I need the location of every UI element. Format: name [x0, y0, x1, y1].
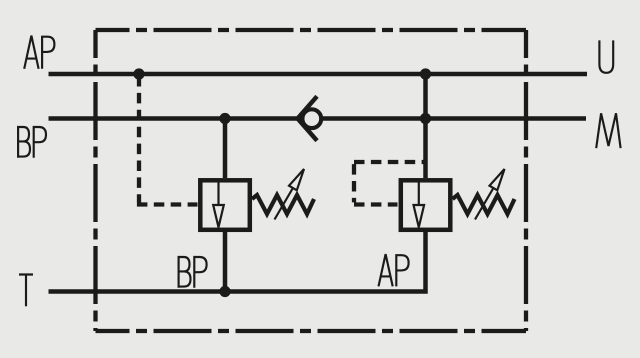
enclosure border right edge: [524, 30, 528, 331]
relief valve V2 adjustment arrow shaft: [475, 188, 493, 220]
wire AP-U main line: [49, 72, 588, 77]
check valve CV1 ball: [302, 109, 321, 128]
junction node A on AP line: [133, 68, 144, 79]
junction node C on BP line: [219, 113, 230, 124]
relief valve V2 adjustment arrow head: [490, 169, 505, 190]
port label M (right) letter M: [596, 113, 620, 148]
port label AP (top left) letter A: [24, 36, 38, 69]
valve label AP (bottom) letter P: [396, 254, 408, 286]
junction node D on BP line: [420, 113, 431, 124]
relief valve V2 body: [401, 180, 451, 230]
port label U (top right) letter U: [599, 40, 613, 72]
wire vertical branch from AP line to valve V2: [423, 74, 428, 178]
port label T (bottom left): [19, 275, 33, 307]
pilot line dashed from V2 branch to valve V2: [354, 162, 424, 205]
valve label BP (bottom) letter P: [194, 256, 206, 288]
pilot line dashed from node A to valve V1: [137, 76, 198, 205]
junction node B on AP line: [420, 68, 431, 79]
enclosure border left edge: [93, 30, 97, 331]
relief valve V1 internal flow arrow: [213, 181, 224, 227]
relief valve V1 adjustment arrow shaft: [275, 188, 293, 220]
port label BP (left) letter B: [18, 126, 30, 158]
enclosure border bottom edge: [96, 329, 527, 333]
enclosure border top edge: [96, 28, 527, 32]
valve label AP (bottom) letter A: [379, 254, 393, 286]
check valve CV1 seat: [298, 96, 317, 140]
relief valve V1 spring: [252, 195, 314, 214]
relief valve V2 spring: [453, 195, 515, 214]
wire valve V1 drain to T line: [223, 232, 228, 292]
relief valve V1 body: [200, 180, 250, 230]
wire BP-M left segment: [49, 116, 299, 121]
relief valve V2 internal flow arrow: [414, 181, 425, 227]
valve label BP (bottom) letter B: [179, 256, 191, 288]
relief valve V1 adjustment arrow head: [289, 169, 304, 190]
wire T drain line with corner up to valve V2: [49, 232, 426, 294]
port label AP (top left) letter P: [42, 36, 54, 69]
wire BP-M right segment: [323, 116, 586, 121]
port label BP (left) letter P: [34, 126, 46, 158]
junction node E on T line: [219, 286, 230, 297]
wire vertical branch from BP line to valve V1: [223, 119, 228, 179]
